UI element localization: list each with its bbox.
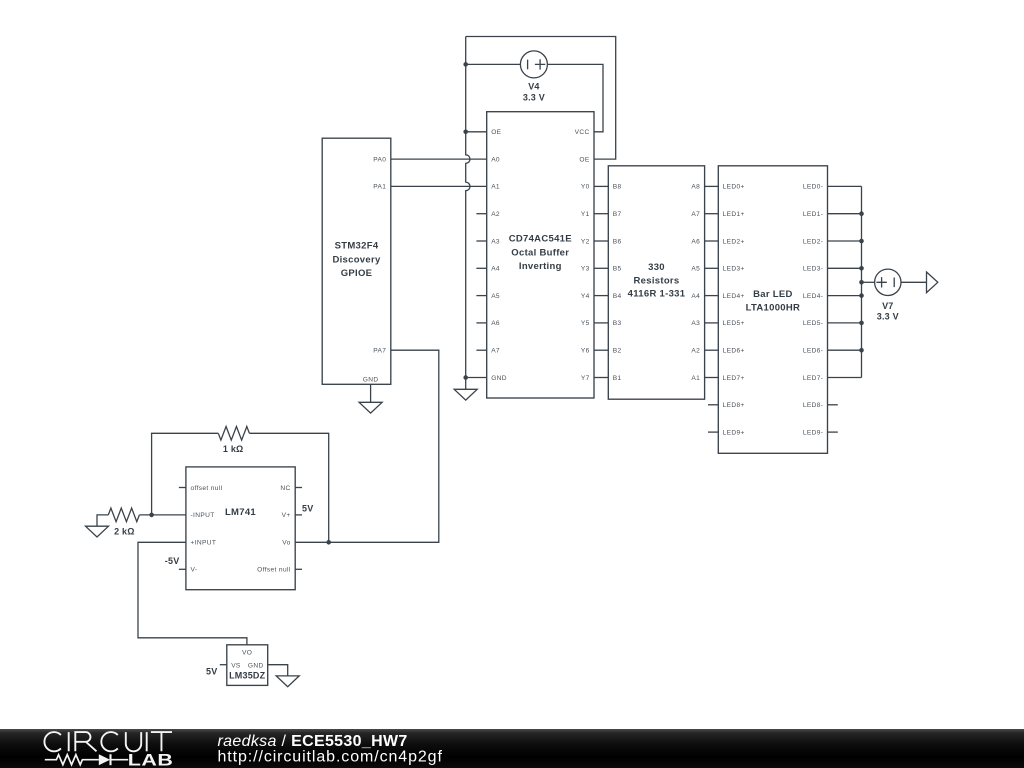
wire V4 positive lead to VCC pin xyxy=(547,64,603,131)
svg-text:Discovery: Discovery xyxy=(332,254,381,265)
wire Y4 to B4 xyxy=(594,295,608,297)
svg-text:3.3 V: 3.3 V xyxy=(877,311,899,321)
wire stub U2 pin A6 xyxy=(476,322,486,324)
svg-text:STM32F4: STM32F4 xyxy=(335,240,379,251)
op-amp U3 LM741 xyxy=(186,467,295,590)
wire stub U2 pin A7 xyxy=(476,349,486,351)
svg-text:B3: B3 xyxy=(613,320,622,327)
svg-text:A1: A1 xyxy=(691,375,700,382)
svg-text:Y0: Y0 xyxy=(581,184,590,191)
ground at LM35 GND xyxy=(276,676,299,687)
wire net OE-top loop xyxy=(466,37,616,160)
svg-text:LED5-: LED5- xyxy=(803,320,823,327)
svg-text:Offset null: Offset null xyxy=(257,567,291,574)
svg-text:VO: VO xyxy=(242,650,252,657)
wire Y0 to B8 xyxy=(594,185,608,187)
svg-text:Y1: Y1 xyxy=(581,211,590,218)
wire LED4- to bus xyxy=(828,295,862,297)
wire stub U3 offset null xyxy=(179,487,186,489)
svg-text:A6: A6 xyxy=(491,320,500,327)
svg-text:B5: B5 xyxy=(613,266,622,273)
svg-text:PA7: PA7 xyxy=(373,348,386,355)
wire right bus vertical (LED cathode net) xyxy=(861,186,863,377)
svg-text:A4: A4 xyxy=(691,293,700,300)
junction bus / LED4- xyxy=(859,293,864,298)
wire LED1- to bus xyxy=(828,213,862,215)
svg-text:GND: GND xyxy=(248,662,264,669)
junction Vo / feedback xyxy=(326,540,331,545)
svg-text:NC: NC xyxy=(280,485,290,492)
svg-text:LED4+: LED4+ xyxy=(723,293,745,300)
junction vertical / V4- xyxy=(463,62,468,67)
wire LED7- to bus xyxy=(828,377,862,379)
resistor R2 2 kOhm xyxy=(108,508,139,522)
svg-text:V-: V- xyxy=(191,567,198,574)
wire stub U3 NC xyxy=(295,487,302,489)
svg-text:3.3 V: 3.3 V xyxy=(523,93,545,103)
CircuitLab logo resistor-diode doodle xyxy=(45,755,128,765)
svg-text:LED8+: LED8+ xyxy=(723,402,745,409)
wire stub U2 pin A3 xyxy=(476,240,486,242)
svg-text:B6: B6 xyxy=(613,238,622,245)
wire A7 to LED1+ xyxy=(705,213,719,215)
svg-text:B2: B2 xyxy=(613,348,622,355)
svg-text:-INPUT: -INPUT xyxy=(191,512,215,519)
wire stub U2 pin A5 xyxy=(476,295,486,297)
svg-text:A8: A8 xyxy=(691,184,700,191)
svg-text:A6: A6 xyxy=(691,238,700,245)
wire stub U3 V+ xyxy=(295,514,302,516)
IC U2 CD74AC541E octal buffer xyxy=(487,112,594,398)
svg-text:1 kΩ: 1 kΩ xyxy=(223,444,244,454)
ground below STM32 GND xyxy=(359,384,382,413)
svg-text:2 kΩ: 2 kΩ xyxy=(114,526,135,536)
svg-text:LAB: LAB xyxy=(128,752,174,768)
svg-text:5V: 5V xyxy=(206,667,217,677)
svg-text:VCC: VCC xyxy=(575,129,590,136)
wire left vertical net (V4- / OE / GND) with hops xyxy=(466,37,470,390)
svg-text:offset null: offset null xyxy=(191,485,223,492)
svg-text:A0: A0 xyxy=(491,156,500,163)
wire A4 to LED4+ xyxy=(705,295,719,297)
svg-text:LED0-: LED0- xyxy=(803,184,823,191)
svg-text:B8: B8 xyxy=(613,184,622,191)
wire U2 OE left pin to vertical xyxy=(466,131,487,133)
wire stub LED9+ xyxy=(708,431,718,433)
svg-text:GPIOE: GPIOE xyxy=(341,268,373,279)
svg-text:V4: V4 xyxy=(528,82,539,92)
svg-text:-5V: -5V xyxy=(165,556,180,566)
junction vertical / U2 GND xyxy=(463,375,468,380)
wire Y7 to B1 xyxy=(594,377,608,379)
wire A8 to LED0+ xyxy=(705,185,719,187)
svg-text:B4: B4 xyxy=(613,293,622,300)
junction -INPUT / feedback xyxy=(149,513,154,518)
svg-text:LED0+: LED0+ xyxy=(723,184,745,191)
svg-text:LED6-: LED6- xyxy=(803,348,823,355)
svg-text:A3: A3 xyxy=(491,238,500,245)
svg-text:LED1-: LED1- xyxy=(803,211,823,218)
junction bus / LED3- xyxy=(859,266,864,271)
svg-text:VS: VS xyxy=(231,662,241,669)
svg-text:A5: A5 xyxy=(491,293,500,300)
svg-text:CD74AC541E: CD74AC541E xyxy=(509,234,572,245)
junction bus / LED2- xyxy=(859,239,864,244)
svg-text:LM741: LM741 xyxy=(225,507,256,518)
svg-text:Octal Buffer: Octal Buffer xyxy=(511,247,569,258)
wire bus to V7 positive xyxy=(862,281,875,283)
node flag at V7 xyxy=(927,272,938,293)
wire A2 to LED6+ xyxy=(705,349,719,351)
svg-text:Y4: Y4 xyxy=(581,293,590,300)
wire A3 to LED5+ xyxy=(705,322,719,324)
svg-text:LED7-: LED7- xyxy=(803,375,823,382)
svg-text:A5: A5 xyxy=(691,266,700,273)
svg-text:Y6: Y6 xyxy=(581,348,590,355)
svg-text:LED7+: LED7+ xyxy=(723,375,745,382)
svg-text:A7: A7 xyxy=(491,348,500,355)
wire PA0 to A0 xyxy=(391,158,487,160)
bar LED D1 LTA1000HR xyxy=(718,166,827,454)
svg-text:A7: A7 xyxy=(691,211,700,218)
wire PA7 to op-amp Vo xyxy=(295,350,439,542)
svg-text:Vo: Vo xyxy=(282,540,290,547)
wire stub LED9- xyxy=(828,431,838,433)
svg-text:LM35DZ: LM35DZ xyxy=(229,671,266,681)
wire A6 to LED2+ xyxy=(705,240,719,242)
wire U2 GND pin to vertical xyxy=(466,377,487,379)
CircuitLab logo text LAB xyxy=(128,752,174,768)
wire feedback right to Vo xyxy=(249,433,328,542)
wire 2k resistor to ground xyxy=(97,515,108,526)
svg-text:Y7: Y7 xyxy=(581,375,590,382)
wire Y1 to B7 xyxy=(594,213,608,215)
resistor network RN1 4116R 1-331 xyxy=(608,166,704,399)
wire Y6 to B2 xyxy=(594,349,608,351)
svg-text:LED9-: LED9- xyxy=(803,429,823,436)
wire +INPUT to LM35 VO xyxy=(138,542,247,645)
svg-text:Resistors: Resistors xyxy=(634,275,680,286)
svg-text:PA0: PA0 xyxy=(373,156,386,163)
svg-text:OE: OE xyxy=(579,156,589,163)
junction bus / V7 xyxy=(859,280,864,285)
wire U4 GND to ground xyxy=(268,665,288,676)
svg-text:Y5: Y5 xyxy=(581,320,590,327)
svg-text:LED1+: LED1+ xyxy=(723,211,745,218)
wire LED2- to bus xyxy=(828,240,862,242)
svg-text:+INPUT: +INPUT xyxy=(191,540,217,547)
svg-text:A3: A3 xyxy=(691,320,700,327)
wire stub U4 VS xyxy=(220,664,227,666)
wire stub U3 Offset null xyxy=(295,568,302,570)
wire stub U2 pin A4 xyxy=(476,267,486,269)
junction bus / LED5- xyxy=(859,321,864,326)
wire PA1 to A1 xyxy=(391,185,487,187)
junction bus / LED6- xyxy=(859,348,864,353)
svg-text:A2: A2 xyxy=(691,348,700,355)
svg-text:A1: A1 xyxy=(491,184,500,191)
resistor R1 1 kOhm xyxy=(218,426,249,440)
svg-text:Inverting: Inverting xyxy=(519,261,562,272)
svg-text:LED6+: LED6+ xyxy=(723,348,745,355)
IC U1 STM32F4 Discovery GPIOE xyxy=(322,138,391,384)
svg-text:5V: 5V xyxy=(302,504,313,514)
svg-text:4116R 1-331: 4116R 1-331 xyxy=(628,289,686,300)
svg-text:B7: B7 xyxy=(613,211,622,218)
svg-text:LED3-: LED3- xyxy=(803,266,823,273)
wire A1 to LED7+ xyxy=(705,377,719,379)
junction bus / LED1- xyxy=(859,211,864,216)
svg-text:OE: OE xyxy=(491,129,501,136)
wire stub U2 pin A2 xyxy=(476,213,486,215)
svg-text:GND: GND xyxy=(491,375,507,382)
wire stub LED8- xyxy=(828,404,838,406)
svg-text:LED4-: LED4- xyxy=(803,293,823,300)
ground at 2k resistor xyxy=(86,526,109,537)
CircuitLab logo text CIRCUIT (drawn strokes) xyxy=(44,732,172,751)
wire LED6- to bus xyxy=(828,349,862,351)
wire A5 to LED3+ xyxy=(705,267,719,269)
wire V7 negative to node flag xyxy=(901,281,927,283)
wire V4 negative lead to vertical xyxy=(466,63,521,65)
svg-text:LED2+: LED2+ xyxy=(723,238,745,245)
svg-text:LED8-: LED8- xyxy=(803,402,823,409)
wire stub U3 V- xyxy=(179,568,186,570)
junction vertical / OE xyxy=(463,130,468,135)
svg-text:http://circuitlab.com/cn4p2gf: http://circuitlab.com/cn4p2gf xyxy=(218,748,443,765)
svg-text:Y2: Y2 xyxy=(581,238,590,245)
ground under U2 vertical xyxy=(454,389,477,400)
wire LED3- to bus xyxy=(828,267,862,269)
voltage source V7 xyxy=(875,269,901,295)
svg-text:LED5+: LED5+ xyxy=(723,320,745,327)
wire LED0- to bus xyxy=(828,185,862,187)
wire stub LED8+ xyxy=(708,404,718,406)
wire feedback left vertical xyxy=(152,433,219,515)
svg-text:LED9+: LED9+ xyxy=(723,429,745,436)
wire -INPUT to 2k resistor xyxy=(139,514,186,516)
svg-text:A4: A4 xyxy=(491,266,500,273)
svg-text:Y3: Y3 xyxy=(581,266,590,273)
svg-text:LED2-: LED2- xyxy=(803,238,823,245)
svg-text:LED3+: LED3+ xyxy=(723,266,745,273)
svg-text:Bar LED: Bar LED xyxy=(753,289,793,300)
wire Y5 to B3 xyxy=(594,322,608,324)
svg-text:330: 330 xyxy=(648,262,665,273)
wire Y3 to B5 xyxy=(594,267,608,269)
svg-text:V7: V7 xyxy=(882,301,893,311)
wire Y2 to B6 xyxy=(594,240,608,242)
temperature sensor U4 LM35DZ xyxy=(227,645,268,686)
svg-text:PA1: PA1 xyxy=(373,184,386,191)
svg-text:GND: GND xyxy=(363,376,379,383)
svg-text:V+: V+ xyxy=(282,512,291,519)
svg-text:A2: A2 xyxy=(491,211,500,218)
voltage source V4 xyxy=(520,51,547,78)
wire LED5- to bus xyxy=(828,322,862,324)
svg-text:LTA1000HR: LTA1000HR xyxy=(746,303,801,314)
svg-text:B1: B1 xyxy=(613,375,622,382)
